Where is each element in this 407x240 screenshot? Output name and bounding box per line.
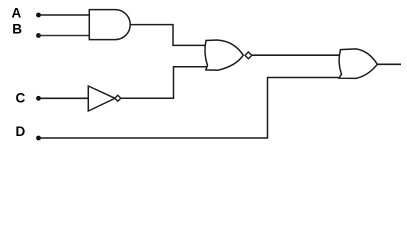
wire D to riser, up, and into OR gate bottom input [39, 78, 339, 139]
wire B to AND gate [39, 35, 91, 37]
svg-text:C: C [16, 91, 26, 106]
svg-text:B: B [12, 21, 22, 36]
or-gate body [339, 49, 377, 79]
nor-gate output bubble (diamond) [245, 52, 252, 59]
wire A to AND gate [39, 14, 91, 16]
input terminal dot C [36, 96, 41, 101]
svg-text:A: A [12, 6, 22, 21]
wire AND output to NOR top input (right, down, right) [130, 25, 206, 46]
wire NOR output to OR gate top input [252, 54, 340, 56]
input terminal dot D [36, 136, 41, 141]
and-gate [89, 10, 130, 40]
wire OR gate output [377, 63, 401, 65]
input terminal dot A [36, 13, 41, 18]
nor-gate OR body [205, 40, 243, 70]
inverter (NOT gate) triangle [88, 86, 115, 111]
svg-text:D: D [16, 124, 26, 139]
wire inverter output to NOR bottom input (right, up, right) [121, 67, 207, 99]
input terminal dot B [36, 33, 41, 38]
inverter output bubble (diamond) [115, 95, 121, 101]
wire C to inverter [39, 97, 89, 99]
